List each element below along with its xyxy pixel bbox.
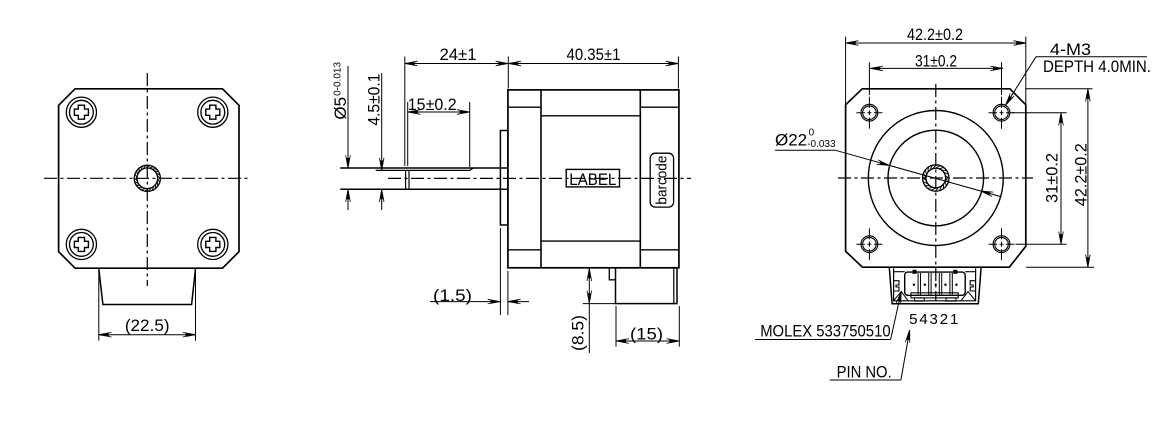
svg-text:DEPTH 4.0MIN.: DEPTH 4.0MIN. (1043, 58, 1151, 76)
M3 hole top-right (993, 104, 1010, 121)
dimension 42.2±0.2 top extension lines (845, 37, 847, 105)
rear shaft hole (923, 165, 949, 191)
rear connector inner shelf (894, 271, 905, 273)
svg-text:(15): (15) (630, 325, 663, 343)
Ø22 leader line (775, 149, 835, 151)
connector bottom extension line (583, 303, 616, 305)
rear connector central block (905, 272, 966, 295)
front view shaft hole knurling (134, 165, 160, 191)
mounting screw bottom-right (198, 229, 228, 259)
svg-text:LABEL: LABEL (569, 170, 616, 189)
dimension Ø5 line and arrows (347, 66, 349, 167)
dimension 31±0.2 top line (870, 67, 1003, 69)
end plate chamfer lines (508, 106, 541, 108)
rotor housing circle (868, 111, 1003, 246)
mounting screw top-left (66, 97, 96, 127)
svg-text:PIN NO.: PIN NO. (837, 364, 892, 382)
front view horizontal centerline (44, 177, 251, 179)
dimension (22.5) line (99, 334, 196, 336)
rear connector housing (889, 268, 981, 304)
svg-text:24±1: 24±1 (440, 46, 477, 64)
svg-text:MOLEX 533750510: MOLEX 533750510 (760, 323, 890, 341)
label plate (566, 169, 619, 187)
stator stack edges (541, 115, 640, 117)
dimension 24±1 line (405, 63, 509, 65)
mounting screw bottom-left (66, 229, 96, 259)
MOLEX leader line (755, 339, 891, 341)
dimension 40.35±1 line (508, 63, 678, 65)
front view vertical centerline (146, 73, 148, 286)
rear shaft hole knurling (923, 165, 949, 191)
dimension (22.5) extension lines (98, 271, 100, 341)
svg-text:31±0.2: 31±0.2 (1044, 153, 1062, 203)
rear connector pins (913, 284, 915, 286)
rear connector top tabs (913, 270, 916, 273)
svg-text:40.35±1: 40.35±1 (567, 46, 621, 64)
dimension 15±0.2 line (408, 111, 470, 113)
dimension (1.5) line (430, 301, 500, 303)
front view mounting boss (trapezoid) (99, 269, 196, 305)
front view shaft hole (134, 165, 160, 191)
side connector housing (616, 268, 678, 304)
svg-text:42.2±0.2: 42.2±0.2 (1073, 143, 1091, 206)
dimension 42.2±0.2 right extension lines (1026, 88, 1093, 90)
side view centerline (388, 177, 691, 179)
side connector notch (609, 268, 615, 280)
PIN NO. leader line (830, 379, 901, 381)
pilot circle Ø22 (888, 130, 984, 226)
4-M3 leader line (1036, 56, 1147, 58)
M3 hole bottom-left (861, 236, 878, 253)
mounting screw top-right (198, 97, 228, 127)
rear connector inner wall (894, 268, 976, 301)
dimension 31±0.2 right extension lines (1012, 112, 1067, 114)
barcode plate (650, 153, 673, 207)
dimension 15±0.2 extension lines (407, 102, 409, 166)
shaft bottom edge with extension (340, 188, 508, 190)
rear connector right latch (970, 281, 975, 291)
svg-text:4.5±0.1: 4.5±0.1 (366, 74, 384, 126)
dimension 24±1 extension lines (404, 57, 406, 167)
pilot boss (side view) (500, 131, 508, 226)
svg-text:15±0.2: 15±0.2 (408, 96, 457, 114)
shaft end face (405, 170, 407, 189)
svg-text:(8.5): (8.5) (570, 315, 588, 351)
svg-text:barcode: barcode (654, 156, 671, 205)
rear connector chevron left (894, 292, 909, 301)
svg-text:5 4 3 2 1: 5 4 3 2 1 (909, 311, 958, 328)
dimension (15) extension lines (615, 306, 617, 347)
M3 hole top-left (861, 104, 878, 121)
rear connector chevron right (961, 292, 976, 301)
rear connector compartment dividers (917, 273, 919, 295)
rear end plate boundary (639, 90, 641, 268)
shaft top edge with Ø5 extension (340, 167, 508, 169)
svg-text:31±0.2: 31±0.2 (915, 52, 957, 70)
rear view motor flange outline (846, 89, 1026, 267)
svg-text:(22.5): (22.5) (125, 317, 170, 335)
dimension 42.2±0.2 top line (846, 42, 1026, 44)
dimension 4.5±0.1 line and arrows (381, 73, 383, 170)
dimension 42.2±0.2 right line (1087, 89, 1089, 267)
dimension 31±0.2 right line (1060, 113, 1062, 245)
rear view vertical centerline (935, 84, 937, 301)
svg-text:Ø50-0.013: Ø50-0.013 (331, 62, 350, 120)
shaft flat edge with extension (376, 168, 474, 170)
svg-text:Ø220-0.033: Ø220-0.033 (775, 128, 836, 151)
front end plate boundary (540, 90, 542, 268)
dimension (15) line (616, 340, 679, 342)
rear connector left latch (894, 281, 899, 291)
svg-text:42.2±0.2: 42.2±0.2 (907, 26, 963, 44)
rear connector bottom bar (911, 293, 958, 298)
dimension (8.5) line (588, 268, 590, 353)
front view motor flange outline (59, 89, 239, 268)
dimension 31±0.2 top extension lines (868, 62, 870, 95)
svg-text:(1.5): (1.5) (433, 287, 472, 305)
M3 hole bottom-right (993, 236, 1010, 253)
side view motor body outline (508, 90, 679, 268)
dimension (1.5) extension lines (499, 228, 501, 315)
rear view horizontal centerline (838, 177, 1033, 179)
